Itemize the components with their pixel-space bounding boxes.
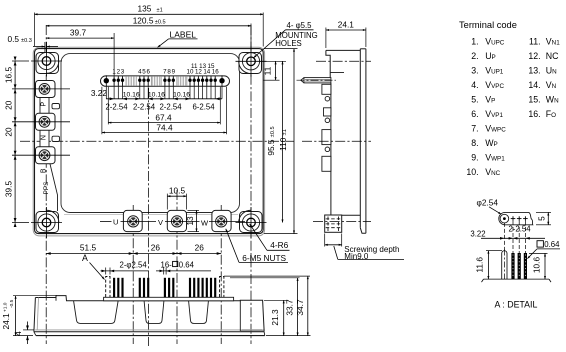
hatched gap 2 bbox=[151, 76, 162, 85]
svg-text:9.: 9. bbox=[471, 152, 478, 162]
side view case upper-left profile bbox=[326, 50, 330, 77]
guide pin right in housing bbox=[219, 75, 224, 86]
svg-text:11: 11 bbox=[191, 63, 198, 70]
P terminal block bbox=[36, 81, 56, 98]
svg-text:LABEL: LABEL bbox=[170, 29, 197, 39]
terminal code row 2. UP bbox=[471, 51, 496, 61]
left mounting holes centerline vertical bbox=[45, 25, 47, 344]
mounting hole bottom-left bbox=[31, 207, 62, 238]
side view pins centerline bbox=[297, 79, 337, 81]
V terminal block bbox=[167, 210, 186, 231]
dimension 11 bbox=[263, 61, 276, 80]
side view bottom ear block bbox=[325, 215, 342, 232]
side view boss 2 bbox=[324, 108, 331, 116]
svg-text:5.: 5. bbox=[471, 94, 478, 104]
B screw bbox=[39, 150, 50, 161]
front view right block notch lines bbox=[240, 330, 264, 331]
right extension line top edge bbox=[264, 48, 298, 50]
svg-text:26: 26 bbox=[151, 242, 161, 252]
side view screw tip circle 3 bbox=[325, 147, 330, 152]
svg-text:N: N bbox=[41, 135, 48, 140]
svg-text:4-R6: 4-R6 bbox=[270, 240, 288, 250]
connector pin 7 bbox=[163, 76, 166, 86]
front view left block right edge bbox=[55, 298, 57, 301]
svg-text:4.: 4. bbox=[471, 80, 478, 90]
front view A label with leader bbox=[82, 253, 105, 280]
terminal code row 6. VVP1 bbox=[471, 109, 503, 119]
front view guide pin right dashed bbox=[220, 277, 224, 298]
svg-text:21.3: 21.3 bbox=[270, 309, 280, 326]
side view case left face bbox=[330, 83, 332, 215]
top view case body outline bbox=[35, 49, 264, 234]
mounting hole top-right bbox=[236, 46, 267, 77]
svg-text:10.5: 10.5 bbox=[169, 185, 186, 195]
svg-text:±0.3: ±0.3 bbox=[21, 38, 32, 44]
svg-text:10.: 10. bbox=[466, 167, 478, 177]
right mounting holes centerline vertical bbox=[250, 25, 252, 344]
front view guide pin left dashed bbox=[106, 277, 110, 298]
side view P terminal boss bbox=[322, 84, 331, 94]
svg-text:11: 11 bbox=[263, 66, 273, 75]
svg-text:2.: 2. bbox=[471, 51, 478, 61]
svg-text:16.5: 16.5 bbox=[4, 67, 14, 84]
connector pin 13 bbox=[201, 76, 204, 86]
svg-text:P: P bbox=[41, 101, 48, 106]
connector pin 2 bbox=[117, 76, 120, 86]
svg-text:11.: 11. bbox=[529, 36, 541, 46]
svg-text:6: 6 bbox=[146, 68, 150, 75]
left dimension column 16.5 20 20 39.5 bbox=[14, 61, 16, 223]
svg-text:20: 20 bbox=[4, 127, 14, 137]
svg-text:15.: 15. bbox=[528, 94, 540, 104]
dimension 74.4 bbox=[102, 122, 227, 132]
connector pin 1 bbox=[112, 76, 115, 86]
side view top hole centerline bbox=[316, 60, 371, 62]
svg-text:10.16: 10.16 bbox=[173, 91, 190, 98]
label 4-R6 with leader bbox=[250, 224, 290, 250]
top dimension 120.5 bbox=[46, 15, 251, 50]
front view connector pedestal bbox=[104, 297, 234, 301]
terminal code row 3. VUP1 bbox=[471, 65, 504, 75]
connector pin 12 bbox=[197, 76, 200, 86]
detail pin cross 3 bbox=[523, 216, 528, 221]
W terminal centerline vertical bbox=[220, 205, 222, 344]
guide pin left in housing bbox=[104, 75, 109, 86]
corner ear pad top-right bbox=[239, 53, 262, 74]
B terminal block bbox=[36, 147, 56, 164]
top view baseplate outline bbox=[33, 47, 264, 236]
dimension 95.5 bbox=[266, 61, 283, 222]
detail dimension 5 bbox=[536, 212, 551, 224]
mounting hole top-left bbox=[31, 46, 62, 77]
front view dimension 4 bbox=[13, 322, 34, 345]
svg-text:13: 13 bbox=[199, 63, 206, 70]
side view connector pins protruding bbox=[301, 78, 331, 83]
detail guide pin side view bbox=[502, 250, 507, 282]
side view B terminal boss bbox=[322, 156, 331, 171]
svg-text:0.64: 0.64 bbox=[179, 260, 195, 269]
screwing depth dimension bbox=[325, 234, 342, 247]
svg-text:6-2.54: 6-2.54 bbox=[192, 103, 215, 112]
svg-text:1.: 1. bbox=[471, 36, 478, 46]
LABEL text with leader bbox=[158, 29, 198, 47]
svg-text:39.5: 39.5 bbox=[4, 181, 14, 198]
svg-text:Terminal code: Terminal code bbox=[459, 20, 517, 30]
front view baseplate bbox=[34, 330, 265, 336]
terminal code row 5. VP bbox=[471, 94, 495, 104]
N screw centerline bbox=[12, 121, 70, 123]
side view bottom ledge bbox=[342, 214, 361, 216]
svg-text:3.22: 3.22 bbox=[470, 230, 485, 239]
connector pin 14 bbox=[205, 76, 208, 86]
top view inner rim shadow line bottom bbox=[64, 213, 238, 215]
svg-text:HOLES: HOLES bbox=[275, 39, 301, 48]
svg-text:39.7: 39.7 bbox=[70, 28, 87, 38]
side view baseplate bbox=[360, 49, 366, 234]
detail label phi2.54 with leader bbox=[477, 198, 502, 215]
svg-text:7.: 7. bbox=[471, 123, 478, 133]
svg-text:3.22: 3.22 bbox=[91, 88, 108, 98]
mounting hole bottom-right bbox=[236, 207, 267, 238]
front view dimension 33.7 bbox=[230, 278, 300, 336]
left dim arrowheads bbox=[14, 57, 17, 228]
connector pin 5 bbox=[142, 76, 145, 86]
svg-text:NC: NC bbox=[546, 51, 559, 61]
V screw bbox=[171, 216, 182, 227]
hatched gap 3 bbox=[177, 76, 188, 85]
dimension 67.4 bbox=[108, 112, 220, 122]
svg-text:0.5: 0.5 bbox=[8, 34, 20, 44]
svg-text:A: A bbox=[82, 253, 88, 263]
tab between N and B bbox=[52, 136, 60, 141]
horizontal centerline of module bbox=[20, 140, 294, 142]
side view dimension 24.1 bbox=[326, 20, 366, 49]
connector pin 6 bbox=[147, 76, 150, 86]
svg-text:26: 26 bbox=[195, 242, 205, 252]
connector housing pill bbox=[101, 76, 230, 86]
right extension line bottom edge bbox=[264, 233, 298, 235]
side view hidden screw hole dashes bbox=[326, 217, 341, 232]
top view inner case rim bbox=[61, 54, 240, 213]
front view label 2-phi2.54 bbox=[101, 260, 149, 274]
svg-text:4: 4 bbox=[13, 331, 23, 336]
detail dim row 3.22 and 2-2.54 bbox=[470, 224, 545, 239]
P terminal neck link bbox=[40, 95, 49, 115]
side view bottom hole centerline bbox=[313, 221, 371, 223]
dimension 0.5 at left edge bbox=[8, 34, 59, 53]
vertical centerline of module bbox=[148, 88, 150, 346]
connector pin 3 bbox=[121, 76, 124, 86]
pin numbers upper row bbox=[191, 63, 215, 70]
svg-text:9: 9 bbox=[172, 68, 176, 75]
connector pin 11 bbox=[193, 76, 196, 86]
housing 74.4 edge extension lines bbox=[102, 87, 227, 135]
side view screw tip circle 1 bbox=[325, 96, 330, 101]
svg-text:67.4: 67.4 bbox=[155, 112, 172, 122]
terminal code row 12. NC bbox=[528, 51, 559, 61]
connector pin 8 bbox=[167, 76, 170, 86]
corner ear pad top-left bbox=[36, 53, 59, 74]
svg-text:8.: 8. bbox=[471, 138, 478, 148]
detail base surface line bbox=[482, 279, 552, 282]
svg-text:2-2.54: 2-2.54 bbox=[508, 224, 531, 233]
detail extension dashed lines bbox=[504, 221, 525, 253]
N screw bbox=[39, 116, 50, 127]
P screw centerline bbox=[12, 88, 70, 90]
terminal code row 11. VN1 bbox=[529, 36, 560, 46]
svg-text:Min9.0: Min9.0 bbox=[344, 252, 369, 261]
connector pin 16 bbox=[214, 76, 217, 86]
label 6-M5 NUTS with leader bbox=[226, 229, 288, 263]
UVW terminals horizontal centerline bbox=[100, 220, 245, 222]
side view top ear inner ledge bbox=[330, 72, 344, 74]
svg-text:3: 3 bbox=[121, 68, 125, 75]
side view N terminal boss bbox=[322, 130, 331, 145]
case contour below B block bbox=[50, 164, 58, 211]
terminal code row 14. VN bbox=[528, 80, 556, 90]
svg-text:PPS: PPS bbox=[43, 181, 50, 195]
svg-text:5: 5 bbox=[536, 216, 546, 221]
svg-text:16.: 16. bbox=[528, 109, 540, 119]
front view left block inner edge bbox=[37, 298, 38, 331]
svg-text:2-2.54: 2-2.54 bbox=[159, 103, 182, 112]
top dimension 135 bbox=[35, 4, 264, 47]
front view case outline bbox=[34, 296, 264, 332]
svg-text:13: 13 bbox=[185, 216, 195, 226]
housing 67.4 edge extension lines bbox=[108, 87, 220, 125]
dimension 13 right of V block bbox=[185, 210, 199, 231]
front view recess 1 bbox=[74, 301, 119, 323]
svg-text:B: B bbox=[41, 168, 48, 173]
front view recess 2 bbox=[144, 301, 164, 323]
front view right block left edge bbox=[239, 301, 241, 331]
front view dimension 21.3 bbox=[264, 300, 311, 335]
svg-text:20: 20 bbox=[4, 100, 14, 110]
svg-text:51.5: 51.5 bbox=[80, 242, 97, 252]
N terminal neck link bbox=[40, 128, 49, 148]
terminal code row 15. WN bbox=[528, 94, 559, 104]
svg-text:10.6: 10.6 bbox=[531, 257, 541, 274]
pin pitch dimension line row bbox=[106, 98, 222, 100]
terminal code row 1. VUPC bbox=[471, 36, 505, 46]
svg-text:U: U bbox=[113, 218, 118, 227]
svg-text:±0.5: ±0.5 bbox=[155, 19, 166, 25]
detail square pin side 3 bbox=[524, 253, 527, 279]
tab between P and N bbox=[52, 104, 60, 109]
detail square pin side 2 bbox=[518, 253, 521, 279]
terminal code row 8. WP bbox=[471, 138, 497, 148]
svg-text:2-2.54: 2-2.54 bbox=[105, 103, 128, 112]
N terminal block bbox=[36, 113, 56, 130]
svg-text:74.4: 74.4 bbox=[156, 122, 173, 132]
terminal code row 9. VWP1 bbox=[471, 152, 505, 162]
svg-text:14.: 14. bbox=[528, 80, 540, 90]
svg-text:6-M5 NUTS: 6-M5 NUTS bbox=[242, 253, 286, 263]
front view dimension 24.1 bbox=[1, 296, 57, 336]
svg-text:4- φ5.5: 4- φ5.5 bbox=[287, 21, 313, 30]
W terminal block bbox=[212, 210, 231, 231]
side view case top edge bbox=[326, 49, 360, 51]
svg-text:0.64: 0.64 bbox=[544, 240, 560, 249]
detail pin cross 1 bbox=[511, 216, 516, 221]
terminal code row 7. VWPC bbox=[471, 123, 506, 133]
right extension line pin row bbox=[264, 79, 280, 81]
U terminal block bbox=[123, 210, 142, 231]
W screw bbox=[216, 216, 227, 227]
svg-text:135: 135 bbox=[138, 4, 152, 14]
front view dimension 34.7 bbox=[224, 276, 310, 336]
terminal code row 16. FO bbox=[528, 109, 556, 119]
svg-text:2-2.54: 2-2.54 bbox=[133, 103, 156, 112]
detail guide pin circle bbox=[500, 214, 509, 223]
terminal code row 13. UN bbox=[528, 65, 557, 75]
svg-text:13.: 13. bbox=[528, 65, 540, 75]
svg-text:3.: 3. bbox=[471, 65, 478, 75]
connector pin 4 bbox=[138, 76, 141, 86]
svg-text:-0.5: -0.5 bbox=[9, 299, 15, 308]
pin extension lines below housing bbox=[106, 86, 222, 98]
connector pin 15 bbox=[209, 76, 212, 86]
U terminal centerline vertical bbox=[132, 205, 134, 344]
svg-text:34.7: 34.7 bbox=[295, 299, 305, 316]
detail dimension 10.6 bbox=[529, 253, 548, 279]
side view middle centerline bbox=[302, 140, 371, 142]
left dim extension ticks bbox=[12, 61, 29, 223]
svg-text:24.1: 24.1 bbox=[338, 20, 355, 30]
V terminal centerline vertical bbox=[176, 190, 178, 344]
U screw bbox=[128, 216, 139, 227]
label 4-phi5.5 mounting holes bbox=[254, 21, 318, 58]
svg-text:11.6: 11.6 bbox=[475, 257, 485, 273]
detail dimension 11.6 bbox=[475, 251, 502, 280]
pin numbers row bbox=[112, 68, 219, 75]
corner ear pad bottom-left bbox=[36, 210, 59, 232]
screwing depth label with leader bbox=[334, 245, 404, 261]
svg-text:φ2.54: φ2.54 bbox=[477, 198, 499, 208]
right extension line hole centerline bbox=[259, 60, 286, 62]
terminal code row 10. VNC bbox=[466, 167, 500, 177]
detail label sq0.64 with leader bbox=[527, 240, 560, 259]
svg-text:W: W bbox=[201, 218, 209, 227]
detail top bar housing end bbox=[499, 212, 533, 224]
dimension 10.5 above V block bbox=[167, 185, 186, 209]
front view recess 3 bbox=[189, 301, 209, 323]
side view screw tip circle 2 bbox=[325, 118, 330, 123]
dimension row 51.5 26 26 bbox=[46, 252, 221, 255]
svg-text:10.16: 10.16 bbox=[148, 91, 165, 98]
svg-text:6.: 6. bbox=[471, 109, 478, 119]
svg-text:33.7: 33.7 bbox=[284, 299, 294, 316]
detail pin cross 2 bbox=[517, 216, 522, 221]
corner ear pad bottom-right bbox=[239, 210, 262, 232]
connector pin 10 bbox=[188, 76, 191, 86]
detail square pin side 1 bbox=[511, 253, 514, 279]
svg-text:15: 15 bbox=[208, 63, 215, 70]
svg-text:±1: ±1 bbox=[157, 8, 163, 14]
svg-text:V: V bbox=[158, 218, 163, 227]
hatched gap 1 bbox=[126, 76, 136, 85]
terminal code row 4. VVPC bbox=[471, 80, 504, 90]
dimension 110 bbox=[278, 49, 294, 234]
front view connector pins bbox=[113, 278, 216, 298]
connector pin 9 bbox=[172, 76, 175, 86]
B screw centerline bbox=[12, 154, 70, 156]
top dimension 39.7 bbox=[46, 28, 114, 76]
P screw bbox=[39, 84, 50, 95]
svg-text:12.: 12. bbox=[528, 51, 540, 61]
svg-text:120.5: 120.5 bbox=[133, 15, 154, 25]
front view label 16-sq0.64 bbox=[156, 260, 211, 274]
svg-text:A : DETAIL: A : DETAIL bbox=[495, 300, 538, 310]
svg-text:2-φ2.54: 2-φ2.54 bbox=[120, 260, 148, 269]
svg-text:10.16: 10.16 bbox=[123, 91, 140, 98]
pitch row arrowheads bbox=[110, 97, 220, 100]
